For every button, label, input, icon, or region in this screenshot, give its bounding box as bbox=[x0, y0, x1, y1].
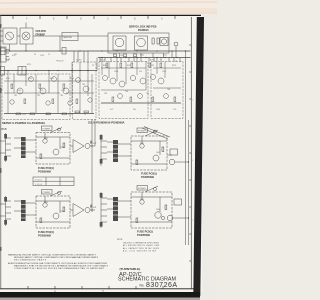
svg-text:C210: C210 bbox=[162, 71, 166, 73]
svg-text:R201: R201 bbox=[103, 65, 107, 67]
svg-text:TR4: TR4 bbox=[82, 84, 85, 86]
svg-text:TR3: TR3 bbox=[60, 95, 63, 97]
svg-text:C406: C406 bbox=[156, 209, 160, 211]
svg-text:PG08509B: PG08509B bbox=[141, 175, 154, 179]
svg-text:C402: C402 bbox=[156, 152, 160, 154]
svg-text:ALL COIL VALUES IN MH: ALL COIL VALUES IN MH bbox=[123, 249, 157, 252]
svg-text:RECOMMENDED PARTS: RECOMMENDED PARTS bbox=[14, 259, 47, 262]
svg-text:C110: C110 bbox=[61, 90, 65, 92]
svg-text:TR5: TR5 bbox=[104, 93, 107, 95]
svg-text:FUSE PC8(1): FUSE PC8(1) bbox=[137, 230, 153, 234]
svg-text:R220: R220 bbox=[140, 55, 144, 57]
svg-text:R209: R209 bbox=[150, 65, 154, 67]
svg-text:10k: 10k bbox=[46, 114, 49, 116]
svg-text:ALL RESISTORS IN OHMS 1/4W: ALL RESISTORS IN OHMS 1/4W bbox=[123, 244, 159, 247]
svg-text:NOTE:: NOTE: bbox=[117, 239, 123, 241]
svg-text:CA-PG: CA-PG bbox=[76, 59, 82, 62]
svg-text:PG08510: PG08510 bbox=[138, 29, 149, 32]
svg-text:(TURNTABLE): (TURNTABLE) bbox=[120, 267, 141, 271]
svg-text:C103: C103 bbox=[17, 90, 21, 92]
svg-text:1k: 1k bbox=[84, 114, 86, 116]
svg-text:CDS PCB: CDS PCB bbox=[36, 31, 47, 33]
svg-text:TR8: TR8 bbox=[167, 89, 170, 91]
svg-text:TP101 6V: TP101 6V bbox=[56, 61, 64, 63]
svg-text:R101: R101 bbox=[6, 78, 10, 80]
svg-text:D: D bbox=[80, 18, 82, 21]
svg-text:C216: C216 bbox=[156, 109, 160, 111]
svg-text:TR1: TR1 bbox=[14, 95, 17, 97]
svg-text:C: C bbox=[107, 18, 109, 21]
svg-text:No.: No. bbox=[140, 284, 145, 288]
svg-text:R105: R105 bbox=[28, 78, 32, 80]
svg-text:MAINTENIR L ETAT DE SECURITE D: MAINTENIR L ETAT DE SECURITE DE L APPARE… bbox=[14, 265, 109, 268]
svg-text:R205: R205 bbox=[127, 65, 131, 67]
svg-text:0.022: 0.022 bbox=[22, 114, 26, 116]
svg-text:C115: C115 bbox=[68, 114, 72, 116]
svg-text:SERVO U-PG08504 CA-PG08504A: SERVO U-PG08504 CA-PG08504A bbox=[2, 121, 45, 125]
svg-text:TP 2W: TP 2W bbox=[5, 59, 11, 61]
svg-text:ALL CAPACITORS IN MF 50WV: ALL CAPACITORS IN MF 50WV bbox=[123, 247, 160, 250]
svg-text:0.47: 0.47 bbox=[110, 109, 113, 111]
svg-text:REPLACE SAFETY CRITICAL COMPON: REPLACE SAFETY CRITICAL COMPONENTS ONLY … bbox=[14, 256, 99, 259]
svg-text:H: H bbox=[102, 290, 104, 293]
svg-text:C1: C1 bbox=[48, 54, 50, 56]
svg-text:FUSE PC8(1): FUSE PC8(1) bbox=[141, 172, 157, 176]
svg-text:R113: R113 bbox=[70, 78, 74, 80]
svg-text:4.7k: 4.7k bbox=[40, 90, 43, 92]
svg-text:33k: 33k bbox=[133, 109, 136, 111]
svg-text:FUSE PC8(1): FUSE PC8(1) bbox=[38, 166, 54, 170]
svg-text:AVERTISSEMENT AU NOISE-LAB COM: AVERTISSEMENT AU NOISE-LAB COMPONENTS CR… bbox=[8, 262, 107, 265]
svg-text:G: G bbox=[54, 290, 56, 293]
svg-text:TR7: TR7 bbox=[146, 93, 149, 95]
svg-text:MOTOR: MOTOR bbox=[64, 37, 73, 39]
svg-text:EP0880F: EP0880F bbox=[36, 34, 46, 36]
svg-text:PG08509B: PG08509B bbox=[38, 234, 51, 238]
svg-text:WARNING ALTHOUGH SAFETY CRITIC: WARNING ALTHOUGH SAFETY CRITICAL COMPONE… bbox=[8, 254, 97, 257]
svg-text:PG08509B: PG08509B bbox=[38, 170, 51, 174]
svg-text:COMPOSANTS A L AIDE DE PIECES: COMPOSANTS A L AIDE DE PIECES RECOMMANDE… bbox=[14, 267, 105, 270]
svg-text:L1: L1 bbox=[175, 61, 177, 63]
svg-text:B-PG: B-PG bbox=[150, 60, 155, 62]
svg-text:S.E.V.-PG08506 B-PG08506A: S.E.V.-PG08506 B-PG08506A bbox=[88, 120, 125, 124]
svg-text:C120: C120 bbox=[40, 55, 44, 57]
svg-text:C221: C221 bbox=[163, 55, 167, 57]
svg-text:R121: R121 bbox=[27, 64, 31, 66]
svg-text:R213: R213 bbox=[172, 65, 176, 67]
svg-text:TR2: TR2 bbox=[37, 95, 40, 97]
svg-text:TR6: TR6 bbox=[125, 91, 128, 93]
svg-text:2PCB: 2PCB bbox=[1, 129, 7, 131]
svg-text:830726A: 830726A bbox=[146, 282, 178, 289]
svg-text:R109: R109 bbox=[50, 78, 54, 80]
svg-text:2.2k: 2.2k bbox=[173, 109, 176, 111]
svg-text:PG08509B: PG08509B bbox=[137, 233, 150, 237]
svg-text:FUSE PC8(1): FUSE PC8(1) bbox=[38, 230, 54, 234]
svg-text:C203: C203 bbox=[114, 71, 118, 73]
svg-text:22k: 22k bbox=[139, 71, 142, 73]
